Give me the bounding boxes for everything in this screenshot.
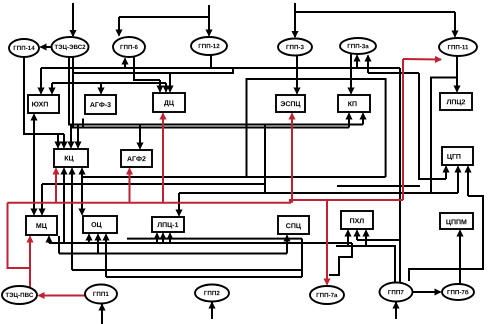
svg-text:ГПП1: ГПП1 [93, 291, 109, 298]
block АГФ-3 [85, 95, 116, 114]
block СПЦ [278, 216, 309, 234]
wire B2 y=127.5 [73, 57, 349, 128]
wire АГФ-3 stub to B2 [82, 119, 84, 128]
wire КЦ-ОЦ double arrow through H1 [81, 169, 83, 178]
ellipse ГПП-12 [191, 37, 227, 55]
wire ТЭЦ-ЭВС2 to ГПП-14 [41, 46, 52, 48]
svg-text:ГПП-12: ГПП-12 [198, 43, 220, 50]
svg-text:ГПП-7а: ГПП-7а [316, 292, 338, 299]
block ДЦ [153, 93, 185, 112]
svg-text:ДЦ: ДЦ [164, 100, 175, 107]
block ОЦ [83, 216, 117, 233]
wire ГПП-11 to ЛПЦ2 [456, 56, 458, 92]
wire drop x=302 [301, 239, 303, 277]
red wire to МЦ and ТЭЦ-ПВС [8, 203, 31, 289]
block ЦГП [442, 147, 473, 165]
wire H3 y=193 ЛПЦ-1 / ЦГП [179, 192, 458, 194]
wire bus bottom B y=253.5 [59, 253, 287, 255]
svg-text:ГПП-14: ГПП-14 [13, 45, 35, 52]
wire staircase to ГПП-7а area [329, 243, 352, 275]
wire ГПП-7б to ЦППМ [459, 231, 461, 285]
block ЭСПЦ [276, 95, 305, 112]
wire B1 y=124.5 [69, 57, 363, 125]
svg-text:ПХЛ: ПХЛ [350, 218, 365, 225]
ellipse ТЭЦ-ЭВС2 [52, 37, 89, 57]
svg-text:ТЭЦ-ЭВС2: ТЭЦ-ЭВС2 [54, 44, 86, 51]
block ЦППМ [440, 213, 473, 229]
ellipse ГПП1 [85, 285, 117, 304]
svg-text:МЦ: МЦ [36, 223, 48, 230]
block МЦ [26, 216, 57, 235]
wire bus bottom D y=277 [106, 276, 302, 278]
svg-text:ГПП2: ГПП2 [204, 290, 220, 297]
svg-text:ГПП-7б: ГПП-7б [447, 289, 469, 296]
wire feed into ГПП-3 and ГПП-11 [295, 3, 455, 12]
block ЛПЦ2 [440, 93, 472, 110]
ellipse ТЭЦ-ПВС [2, 286, 37, 304]
svg-text:ЦГП: ЦГП [447, 154, 461, 161]
ellipse ГПП-11 [439, 38, 477, 56]
svg-text:ОЦ: ОЦ [91, 222, 102, 229]
wire bus bottom A y=243 [49, 242, 352, 244]
svg-text:АГФ2: АГФ2 [127, 156, 146, 163]
red wire to КЦ [55, 169, 57, 203]
wire bus C y=83 [52, 82, 166, 84]
wire feed into ГПП1 [101, 305, 103, 324]
block ЛПЦ-1 [152, 217, 184, 232]
block КП [338, 95, 370, 112]
ellipse ГПП-7б [442, 284, 474, 300]
wire ГПП-11 branch down to H3 [431, 78, 457, 194]
ellipse ГПП-3 [278, 39, 312, 56]
wire L1 ГПП-14 down to КЦ [24, 57, 64, 134]
red bus y=202.5 [8, 200, 404, 203]
block ПХЛ [341, 211, 373, 229]
svg-text:КП: КП [348, 101, 357, 108]
svg-text:ГПП-11: ГПП-11 [447, 44, 469, 51]
wire arrows ЛПЦ-1 bottom [156, 234, 158, 244]
svg-text:ЭСПЦ: ЭСПЦ [280, 101, 301, 108]
ellipse ГПП7 [380, 283, 413, 302]
wire ГПП7 to right riser to ЦГП [409, 196, 483, 281]
wire riser x=419 to ЦГП [419, 73, 446, 179]
wire H2 y=184 to МЦ [42, 183, 265, 185]
svg-text:КЦ: КЦ [64, 156, 74, 163]
ellipse ГПП-7а [310, 286, 344, 304]
svg-text:ГПП-3: ГПП-3 [286, 44, 304, 51]
red wire to ДЦ [162, 114, 164, 203]
wire ЮХП-МЦ double arrow [33, 115, 35, 156]
red wire ГПП1 to ТЭЦ-ПВС [39, 295, 86, 297]
block ЮХП [28, 95, 59, 113]
wire B1 to H3 connector x=265 [264, 125, 266, 194]
wire bus bottom C y=270 [72, 269, 302, 271]
svg-text:ТЭЦ-ПВС: ТЭЦ-ПВС [5, 292, 33, 299]
ellipse ГПП2 [195, 285, 229, 302]
wire ГПП-3а bottom feed from step y=73 [367, 56, 369, 74]
wire feed into ГПП-6 and ГПП-12 [208, 5, 210, 17]
wire ГПП-3а to КП [350, 54, 352, 94]
svg-text:АГФ-3: АГФ-3 [90, 102, 111, 109]
block КЦ [54, 149, 88, 167]
svg-text:ГПП-3а: ГПП-3а [347, 43, 369, 50]
block АГФ2 [121, 150, 152, 167]
wire feed into ТЭЦ-ЭВС2 top [72, 3, 74, 36]
svg-text:ЮХП: ЮХП [32, 102, 49, 109]
wire riser КЦ from A x=64 [63, 169, 65, 244]
svg-text:ГПП-6: ГПП-6 [120, 44, 138, 51]
wire feed into ГПП7 [395, 303, 397, 320]
red wire to ГПП-7а [326, 200, 328, 285]
wire arrow ОЦ a1 [88, 235, 90, 244]
wire ring branch y=79 from H1 riser x=246.5 to x=385.6 [247, 79, 386, 177]
wire H2b y=186 [337, 185, 420, 187]
wire feed into ГПП2 [211, 303, 213, 320]
svg-text:ЛПЦ-1: ЛПЦ-1 [157, 222, 178, 229]
svg-text:ЦППМ: ЦППМ [446, 219, 467, 226]
ellipse ГПП-3а [340, 38, 376, 54]
wire ГПП7 to ГПП-7б [413, 291, 441, 293]
red wire to АГФ2 [129, 169, 131, 203]
svg-text:ГПП7: ГПП7 [388, 289, 404, 296]
wire ПХЛ feeds [357, 239, 400, 241]
wire bus A y=68 [41, 67, 400, 69]
svg-text:СПЦ: СПЦ [286, 223, 302, 230]
wire ГПП-6 to ДЦ [134, 56, 160, 80]
wire ГПП-3 to ЭСПЦ [296, 55, 298, 94]
ellipse ГПП-6 [113, 37, 145, 57]
red wire to ЭСПЦ [291, 114, 293, 203]
ellipse ГПП-14 [9, 39, 39, 57]
red wire to ГПП-11 [402, 59, 404, 200]
wire bus bottom A2 y=238.6 [127, 238, 302, 240]
svg-text:ЛПЦ2: ЛПЦ2 [446, 99, 465, 106]
wire bus B y=73 [73, 68, 233, 73]
wire H1 y=177 [82, 176, 386, 178]
